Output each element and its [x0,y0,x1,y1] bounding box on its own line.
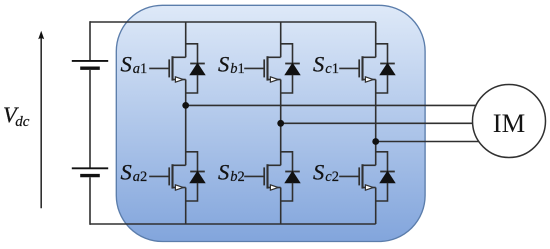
svg-text:a2: a2 [133,169,148,185]
transistor Sa2 source lead [173,187,186,189]
wire: left DC link, middle segment [89,70,91,168]
svg-text:dc: dc [15,114,30,130]
wire: left DC link, upper segment [89,21,91,60]
transistor Sc2 source arrow [365,185,373,190]
transistor Sb1 source arrow [270,77,278,82]
transistor Sa1 source arrow [175,77,183,82]
wire: leg c upper segment (rail to c1 drain) [375,22,377,57]
transistor Sc2 drain lead [363,164,376,166]
transistor Sb2 channel bar [266,164,268,188]
label Sb1 [218,52,245,78]
wire: negative DC rail (bottom) [90,223,376,225]
svg-text:S: S [218,52,229,77]
wire: leg c lower segment (c2 source to rail) [375,188,377,225]
svg-text:c2: c2 [325,169,339,185]
battery B1 (upper DC source) [72,61,108,68]
wire: leg a middle segment (a1 source to a2 drain) [185,80,187,166]
label Sa2 [121,160,148,186]
transistor Sb2 gate bar [263,167,265,185]
node: phase a junction [182,102,189,109]
svg-text:S: S [218,160,229,185]
transistor Sb2 drain lead [268,164,281,166]
wire: positive DC rail (top) [90,21,376,23]
wire: leg b middle segment (b1 source to b2 drain) [280,80,282,166]
motor IM (induction machine) [473,85,546,158]
label Sa1 [121,52,148,78]
inverter block (rounded gradient box) [116,5,425,241]
wire: leg c middle segment (c1 source to c2 drain) [375,80,377,166]
transistor Sa1 gate lead wire [149,67,169,69]
transistor Sa1 drain lead [173,56,186,58]
label Sc2 [313,160,339,186]
transistor Sc2 channel bar [361,164,363,188]
transistor Sc1 channel bar [361,56,363,80]
svg-text:IM: IM [493,108,525,138]
wire: leg a upper segment (rail to a1 drain) [185,22,187,57]
diode Dc1 (antiparallel) [376,44,395,93]
svg-text:b1: b1 [230,61,245,77]
voltage arrow for Vdc [38,31,44,209]
transistor Sc2 gate bar [358,167,360,185]
transistor Sb2 gate lead wire [244,175,264,177]
svg-text:S: S [313,160,324,185]
transistor Sb1 channel bar [266,56,268,80]
transistor Sb2 source arrow [270,185,278,190]
diode Db1 (antiparallel) [281,44,300,93]
svg-text:S: S [121,160,132,185]
wire: leg b upper segment (rail to b1 drain) [280,22,282,57]
diode Da1 (antiparallel) [186,44,205,93]
transistor Sc2 gate lead wire [339,175,359,177]
transistor Sc1 gate lead wire [339,67,359,69]
svg-text:S: S [313,52,324,77]
transistor Sa2 gate bar [168,167,170,185]
svg-text:a1: a1 [133,61,148,77]
transistor Sb1 drain lead [268,56,281,58]
transistor Sa2 gate lead wire [149,175,169,177]
transistor Sa1 gate bar [168,59,170,77]
wire: leg a lower segment (a2 source to rail) [185,188,187,225]
label Sc1 [313,52,339,78]
transistor Sa1 source lead [173,79,186,81]
transistor Sb1 gate bar [263,59,265,77]
transistor Sc1 gate bar [358,59,360,77]
node: phase b junction [277,120,284,127]
transistor Sa2 drain lead [173,164,186,166]
wire: leg b lower segment (b2 source to rail) [280,188,282,225]
wire: phase b output to motor [281,122,474,124]
transistor Sb2 source lead [268,187,281,189]
transistor Sc2 source lead [363,187,376,189]
battery B2 (lower DC source) [72,168,108,175]
node: phase c junction [372,138,379,145]
transistor Sa2 channel bar [171,164,173,188]
transistor Sb1 source lead [268,79,281,81]
diode Db2 (antiparallel) [281,152,300,201]
diode Da2 (antiparallel) [186,152,205,201]
transistor Sb1 gate lead wire [244,67,264,69]
svg-text:S: S [121,52,132,77]
wire: phase c output to motor [376,141,480,143]
transistor Sc1 source arrow [365,77,373,82]
diode Dc2 (antiparallel) [376,152,395,201]
wire: phase a output to motor [186,104,478,106]
transistor Sa1 channel bar [171,56,173,80]
svg-text:b2: b2 [230,169,245,185]
transistor Sc1 drain lead [363,56,376,58]
svg-text:c1: c1 [325,61,339,77]
transistor Sc1 source lead [363,79,376,81]
label Sb2 [218,160,245,186]
wire: left DC link, lower segment [89,177,91,225]
label Vdc [3,102,30,130]
transistor Sa2 source arrow [175,185,183,190]
